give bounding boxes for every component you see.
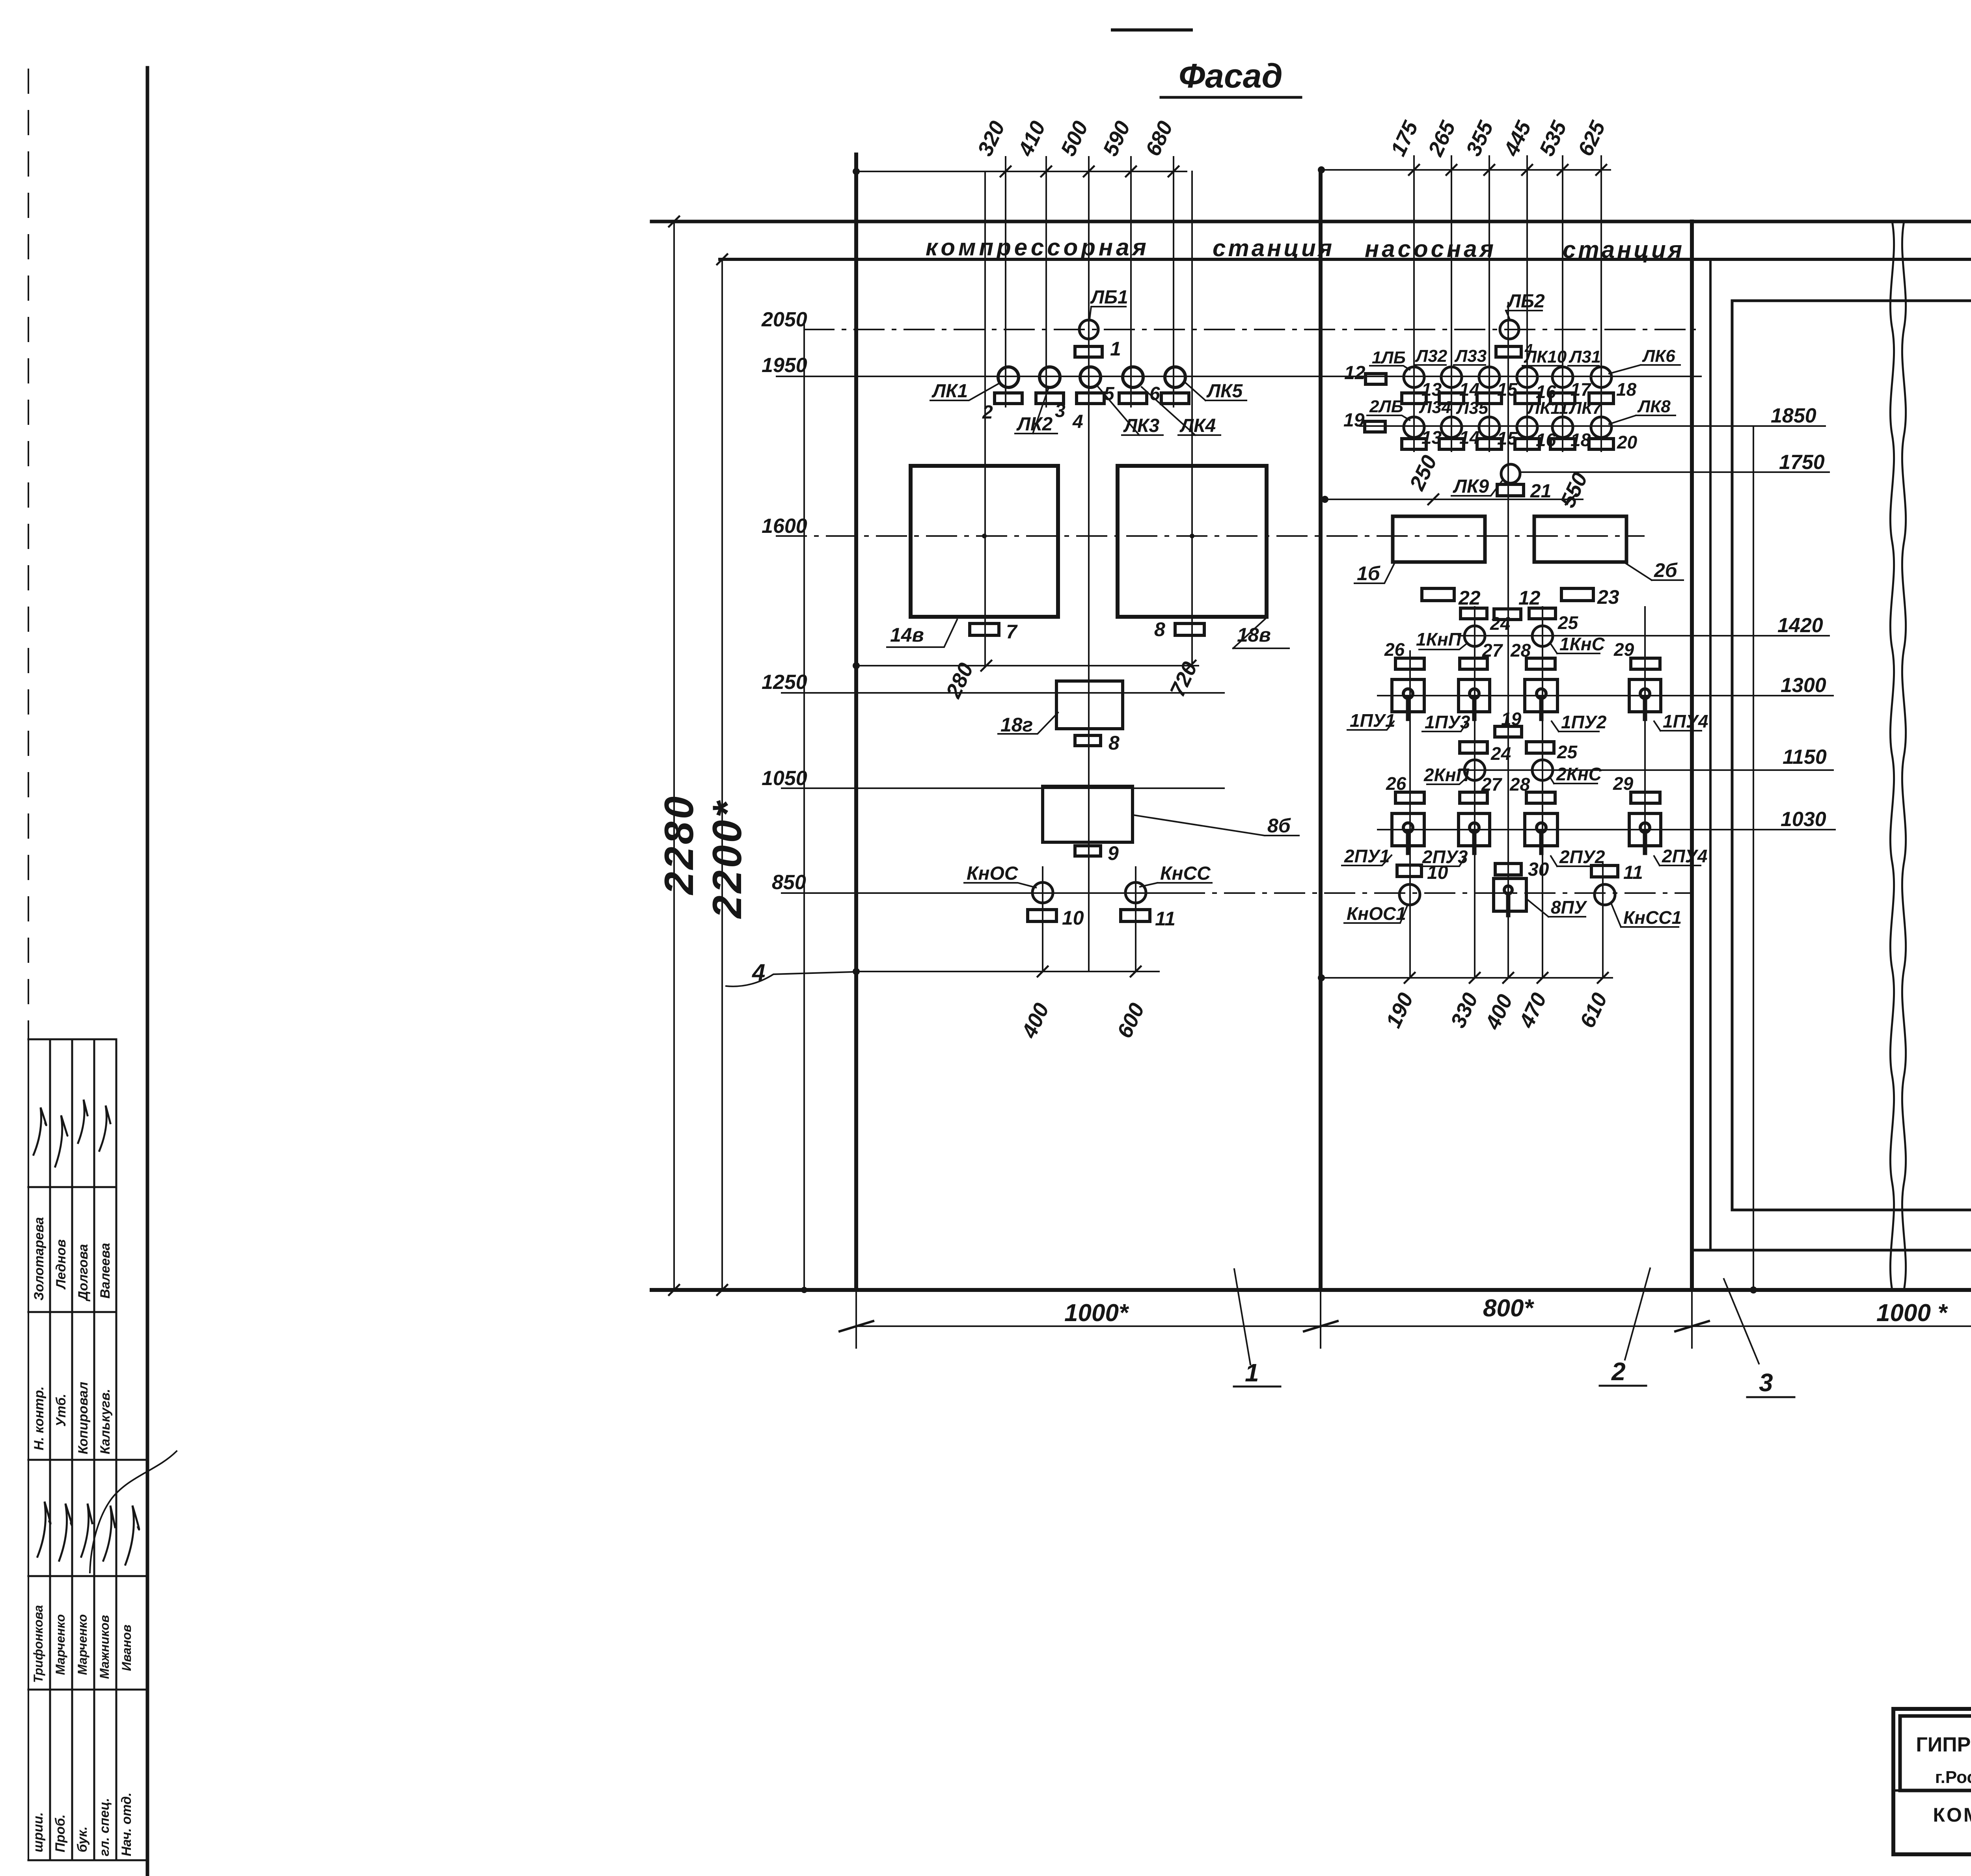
lamp ЛК5 — [1165, 367, 1185, 387]
svg-text:Н. контр.: Н. контр. — [32, 1387, 47, 1450]
center marks of squares — [982, 534, 987, 538]
svg-text:24: 24 — [1490, 613, 1510, 634]
svg-text:19: 19 — [1343, 410, 1365, 431]
plate 26b — [1395, 792, 1424, 803]
svg-text:850: 850 — [772, 871, 806, 894]
svg-text:КнОС: КнОС — [967, 863, 1019, 884]
plates 2-6 under lamps — [995, 393, 1189, 404]
svg-text:13: 13 — [1421, 379, 1442, 400]
svg-text:Проб.: Проб. — [53, 1815, 68, 1853]
svg-text:18: 18 — [1570, 430, 1591, 450]
svg-text:14в: 14в — [890, 624, 924, 646]
stamp roles upper rotated — [32, 1382, 113, 1454]
vertical dimension line 2280 — [673, 221, 675, 1290]
svg-text:ЛК6: ЛК6 — [1642, 346, 1675, 366]
dimension line 250 550 — [1325, 499, 1583, 500]
svg-text:5: 5 — [1104, 383, 1115, 404]
level line 1250 — [782, 692, 1224, 694]
svg-text:2ПУ1: 2ПУ1 — [1344, 846, 1390, 866]
instrument 1б — [1393, 516, 1485, 562]
plate 24b — [1460, 742, 1487, 753]
svg-text:1ПУ2: 1ПУ2 — [1561, 712, 1607, 732]
panel divider 2-3 — [1690, 221, 1694, 1290]
svg-text:15: 15 — [1497, 379, 1518, 400]
svg-text:4: 4 — [1072, 411, 1083, 432]
svg-text:8ПУ: 8ПУ — [1551, 897, 1588, 918]
plate 25b — [1526, 742, 1554, 753]
svg-text:26: 26 — [1386, 773, 1407, 794]
svg-text:3: 3 — [1055, 400, 1066, 421]
lamp ЛК2 — [1040, 367, 1060, 387]
switch 2ПУ3 — [1459, 813, 1490, 853]
svg-text:1ЛБ: 1ЛБ — [1372, 348, 1406, 367]
svg-text:Марченко: Марченко — [53, 1614, 67, 1675]
left level extension column — [803, 321, 805, 1290]
plate 7 — [970, 623, 999, 635]
sheet left border thick — [146, 68, 149, 1876]
svg-text:1ПУ4: 1ПУ4 — [1663, 711, 1708, 731]
svg-text:13: 13 — [1421, 427, 1442, 448]
svg-text:1420: 1420 — [1777, 614, 1823, 637]
svg-text:Л34: Л34 — [1419, 398, 1451, 417]
sheet top frame segment left — [1112, 28, 1191, 32]
svg-text:10: 10 — [1427, 862, 1448, 883]
svg-text:Мажников: Мажников — [97, 1615, 112, 1679]
svg-text:гл. спец.: гл. спец. — [97, 1798, 112, 1856]
button 2КнС — [1532, 760, 1553, 780]
plate 1 under ЛБ1 — [1075, 346, 1102, 357]
svg-text:1б: 1б — [1357, 562, 1381, 584]
svg-text:ЛБ2: ЛБ2 — [1507, 291, 1545, 312]
svg-text:8: 8 — [1154, 618, 1165, 640]
svg-text:800*: 800* — [1483, 1295, 1534, 1322]
svg-text:КнСС: КнСС — [1160, 863, 1211, 884]
panel left border — [854, 154, 858, 1290]
plate 12 row 1 left — [1366, 374, 1386, 384]
svg-text:29: 29 — [1613, 639, 1634, 660]
plate 22 — [1422, 588, 1454, 601]
svg-text:ЛК7: ЛК7 — [1569, 398, 1603, 418]
svg-text:ЛК10: ЛК10 — [1524, 347, 1567, 367]
plate 12 center — [1494, 609, 1521, 620]
dimension line 280 720 — [856, 665, 1198, 666]
panel top edge line — [652, 220, 1971, 223]
plate 27b — [1460, 792, 1487, 803]
level line 1950 — [777, 376, 1701, 377]
svg-text:12: 12 — [1344, 363, 1366, 383]
plate 8 under 18г — [1075, 735, 1101, 746]
svg-text:компрессорная: компрессорная — [926, 234, 1149, 261]
svg-text:19: 19 — [1501, 709, 1522, 729]
svg-text:1КнС: 1КнС — [1559, 634, 1605, 654]
stamp signatures lower — [37, 1502, 139, 1565]
svg-text:станция: станция — [1563, 236, 1684, 263]
plate 11 panel2 — [1591, 865, 1618, 877]
svg-text:11: 11 — [1155, 908, 1176, 930]
top dimension line panel 2 — [1321, 169, 1610, 171]
instrument 14в square — [911, 466, 1058, 617]
svg-text:7: 7 — [1006, 621, 1018, 643]
leader and label 2 — [1625, 1268, 1650, 1360]
plates row 2 — [1402, 439, 1613, 449]
selector 8ПУ — [1494, 878, 1526, 915]
svg-text:1050: 1050 — [762, 767, 807, 790]
plate 29 — [1631, 658, 1660, 669]
plate 9 — [1075, 846, 1101, 856]
svg-text:2КнС: 2КнС — [1556, 764, 1602, 784]
dimension line 400 600 — [856, 971, 1159, 972]
lamp row 1: 1ЛБ Л32 Л33 ЛК10 Л31 ЛК6 — [1404, 367, 1611, 387]
svg-text:1000*: 1000* — [1064, 1299, 1129, 1327]
svg-text:30: 30 — [1528, 859, 1549, 880]
svg-text:Золотарева: Золотарева — [32, 1217, 47, 1301]
svg-text:Иванов: Иванов — [119, 1625, 134, 1671]
lamp ЛК4 — [1123, 367, 1143, 387]
svg-text:КнСС1: КнСС1 — [1623, 907, 1682, 928]
svg-text:29: 29 — [1613, 773, 1634, 794]
columns through КнОС КнСС — [1043, 867, 1136, 971]
leader and label 1 — [1234, 1269, 1250, 1364]
svg-text:18в: 18в — [1237, 624, 1271, 646]
svg-text:1750: 1750 — [1779, 451, 1825, 474]
svg-text:1300: 1300 — [1781, 674, 1826, 697]
svg-text:КОМПРЕССОРНАЯ: КОМПРЕССОРНАЯ — [1933, 1804, 1971, 1826]
switch 1ПУ4 — [1629, 679, 1661, 719]
switch 1ПУ3 — [1459, 679, 1490, 719]
svg-text:шрии.: шрии. — [31, 1812, 46, 1852]
svg-text:8б: 8б — [1267, 815, 1291, 837]
svg-text:18г: 18г — [1000, 714, 1033, 736]
button КнСС1 — [1595, 884, 1615, 905]
svg-text:20: 20 — [1617, 432, 1638, 452]
vertical dimension line 2200* — [721, 259, 723, 1290]
panel 3 door inner rectangle — [1732, 301, 1971, 1210]
svg-text:1850: 1850 — [1771, 404, 1816, 427]
svg-text:Л32: Л32 — [1415, 346, 1448, 366]
plate 10 — [1028, 910, 1056, 921]
svg-text:Фасад: Фасад — [1179, 57, 1283, 95]
instrument 8б — [1043, 786, 1133, 842]
svg-text:8: 8 — [1108, 732, 1120, 754]
svg-text:11: 11 — [1623, 862, 1643, 883]
org cell divider — [1893, 1789, 1971, 1792]
instrument 2б — [1534, 516, 1626, 562]
svg-text:23: 23 — [1597, 586, 1619, 608]
break wavy line right — [1902, 221, 1906, 1290]
svg-text:22: 22 — [1458, 587, 1481, 609]
plate 24a — [1461, 608, 1487, 619]
level line 1050 — [782, 787, 1224, 789]
svg-text:25: 25 — [1557, 612, 1579, 633]
plate 10 panel2 — [1397, 865, 1421, 877]
plate 26 — [1395, 658, 1424, 669]
svg-text:16: 16 — [1536, 430, 1556, 450]
right level lines and labels — [1360, 425, 1825, 427]
svg-text:12: 12 — [1518, 587, 1541, 609]
svg-text:1150: 1150 — [1783, 746, 1827, 769]
svg-text:26: 26 — [1384, 639, 1405, 660]
svg-text:Марченко: Марченко — [75, 1614, 89, 1675]
svg-text:ЛК1: ЛК1 — [931, 381, 968, 402]
svg-text:Долгова: Долгова — [76, 1244, 91, 1302]
panel 3 plinth line — [1692, 1249, 1971, 1252]
svg-text:2: 2 — [1611, 1357, 1626, 1386]
level line 2050 centerline — [804, 329, 1695, 330]
plate 21 — [1497, 484, 1524, 496]
svg-text:2050: 2050 — [761, 308, 807, 331]
plate 11 — [1121, 910, 1150, 921]
svg-text:2: 2 — [982, 402, 993, 423]
svg-text:ЛК9: ЛК9 — [1453, 476, 1489, 497]
svg-text:КнОС1: КнОС1 — [1347, 903, 1406, 924]
svg-text:1: 1 — [1245, 1359, 1259, 1387]
stamp flourish — [90, 1451, 177, 1573]
lamp ЛК3 — [1080, 367, 1101, 387]
svg-text:Леднов: Леднов — [54, 1239, 69, 1290]
switch 2ПУ4 — [1629, 813, 1661, 853]
svg-text:9: 9 — [1108, 842, 1119, 864]
svg-text:1: 1 — [1110, 338, 1121, 360]
button 1КнС — [1532, 626, 1553, 646]
svg-text:27: 27 — [1481, 774, 1503, 795]
svg-text:1600: 1600 — [762, 515, 807, 538]
svg-text:14: 14 — [1459, 427, 1479, 448]
leader and label 3 — [1724, 1279, 1759, 1364]
svg-text:насосная: насосная — [1365, 236, 1496, 262]
panel band lower line — [720, 258, 1971, 261]
svg-text:Валеева: Валеева — [98, 1243, 113, 1299]
construction columns panel 2 — [1410, 156, 1645, 978]
button КнСС — [1125, 882, 1146, 903]
svg-text:Копировал: Копировал — [76, 1382, 91, 1454]
top dimension line panel 1 — [856, 171, 1187, 172]
stamp names lower rotated — [31, 1605, 134, 1683]
button 1КнП — [1464, 626, 1485, 646]
svg-text:10: 10 — [1062, 907, 1084, 929]
svg-text:14: 14 — [1459, 379, 1479, 400]
svg-text:3: 3 — [1759, 1368, 1773, 1397]
svg-text:2280: 2280 — [656, 794, 702, 895]
stamp signatures upper — [34, 1100, 110, 1167]
plate 28b — [1526, 792, 1555, 803]
svg-text:ЛБ1: ЛБ1 — [1090, 287, 1128, 308]
switch 1ПУ1 — [1392, 679, 1424, 719]
plate 23 — [1561, 588, 1593, 601]
svg-text:Утб.: Утб. — [54, 1394, 69, 1427]
svg-text:ЛК8: ЛК8 — [1637, 397, 1671, 416]
svg-text:2ЛБ: 2ЛБ — [1369, 397, 1403, 416]
plates row 1 — [1402, 393, 1613, 404]
svg-text:1950: 1950 — [762, 354, 807, 377]
switch 2ПУ2 — [1525, 813, 1557, 853]
instrument 18г — [1056, 681, 1123, 729]
lamp ЛК9 — [1501, 464, 1520, 483]
button КнОС — [1032, 882, 1053, 903]
plate 29b — [1631, 792, 1660, 803]
svg-text:Калькугв.: Калькугв. — [98, 1389, 113, 1454]
svg-text:Л33: Л33 — [1454, 346, 1487, 366]
extension of top edge to dimension lines — [652, 221, 670, 222]
switch 1ПУ2 — [1525, 679, 1557, 719]
plate 28 — [1526, 658, 1555, 669]
switch 2ПУ1 — [1392, 813, 1424, 853]
stamp table grid — [28, 1039, 147, 1860]
plate 30 — [1495, 864, 1521, 875]
org cell inner box — [1900, 1716, 1971, 1790]
svg-text:28: 28 — [1510, 640, 1531, 661]
svg-text:Л35: Л35 — [1456, 398, 1488, 418]
bottom overall dimension line — [856, 1325, 1971, 1327]
svg-text:ГИПРОСТРОЙДОРМАШ: ГИПРОСТРОЙДОРМАШ — [1916, 1733, 1971, 1756]
svg-text:18: 18 — [1616, 379, 1637, 400]
svg-text:1030: 1030 — [1781, 808, 1826, 831]
svg-text:1250: 1250 — [762, 671, 807, 694]
svg-text:24: 24 — [1490, 743, 1511, 764]
lamp ЛБ2 — [1500, 320, 1519, 339]
panel divider 1-2 — [1319, 170, 1323, 1290]
button 2КнП — [1464, 760, 1485, 780]
instrument 18в square — [1118, 466, 1267, 617]
plate 27 — [1460, 658, 1487, 669]
svg-text:1000 *: 1000 * — [1876, 1299, 1948, 1327]
svg-text:ЛК2: ЛК2 — [1016, 414, 1053, 435]
plate 25a — [1529, 608, 1556, 619]
sheet left trim dashed line — [28, 69, 29, 1039]
svg-text:бук.: бук. — [75, 1826, 90, 1852]
plate 8 — [1175, 623, 1204, 635]
svg-text:2б: 2б — [1654, 559, 1678, 581]
plate under ЛБ2 — [1496, 346, 1521, 357]
svg-text:25: 25 — [1557, 742, 1578, 762]
svg-text:6: 6 — [1149, 383, 1160, 404]
plate 19 row 2 left — [1365, 421, 1385, 432]
lamp ЛБ1 — [1079, 320, 1098, 339]
svg-text:2ПУ4: 2ПУ4 — [1662, 846, 1707, 866]
svg-text:Трифонкова: Трифонкова — [31, 1605, 45, 1683]
svg-text:Л31: Л31 — [1569, 347, 1601, 367]
level line 1600 centerline — [777, 535, 1644, 537]
break wavy line left — [1890, 221, 1894, 1290]
right level extension column — [1753, 426, 1754, 1290]
lamp ЛК1 — [998, 367, 1019, 387]
level line 850 — [782, 892, 1175, 894]
svg-text:27: 27 — [1482, 640, 1503, 661]
svg-text:станция: станция — [1213, 235, 1334, 261]
svg-text:ЛК3: ЛК3 — [1123, 415, 1159, 436]
svg-text:Нач. отд.: Нач. отд. — [119, 1792, 134, 1856]
svg-text:ЛК11: ЛК11 — [1527, 398, 1569, 418]
svg-text:15: 15 — [1497, 428, 1518, 449]
svg-text:г.Ростов-на-Дону 1976г.: г.Ростов-на-Дону 1976г. — [1935, 1768, 1971, 1787]
svg-text:1КнП: 1КнП — [1416, 629, 1462, 650]
svg-text:ЛК5: ЛК5 — [1206, 381, 1243, 402]
lamp row 2: 2ЛБ Л34 Л35 ЛК11 ЛК7 ЛК8 — [1404, 417, 1611, 437]
button КнОС1 — [1399, 884, 1420, 905]
svg-text:1ПУ3: 1ПУ3 — [1425, 712, 1470, 732]
stamp names upper rotated — [32, 1217, 113, 1302]
panel 3 inner left border line — [1709, 259, 1712, 1250]
construction columns panel 1 — [985, 157, 1192, 971]
svg-text:28: 28 — [1509, 774, 1530, 795]
svg-text:17: 17 — [1570, 379, 1592, 400]
svg-text:2200*: 2200* — [704, 799, 750, 919]
title block outer box — [1893, 1709, 1971, 1854]
plate 19 center — [1495, 726, 1522, 737]
stamp roles lower rotated — [31, 1792, 134, 1856]
panel bottom edge — [652, 1288, 1971, 1292]
dimension line 190 330 400 470 610 — [1321, 977, 1612, 979]
